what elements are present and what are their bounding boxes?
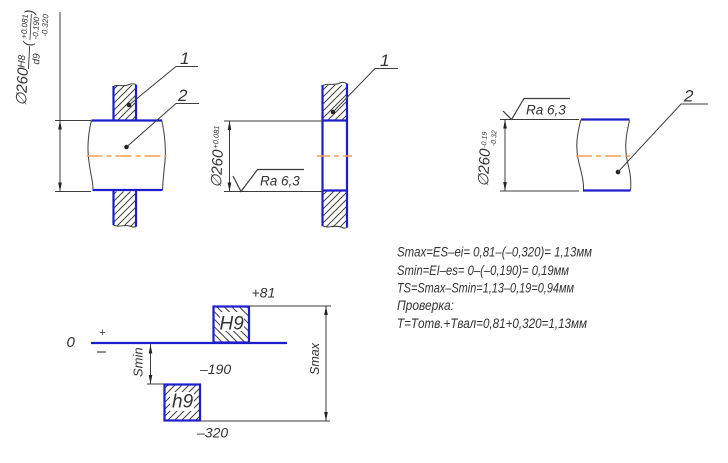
svg-text:+81: +81 — [252, 285, 276, 301]
svg-text:TS=Smax–Smin=1,13–0,19=0,94мм: TS=Smax–Smin=1,13–0,19=0,94мм — [397, 281, 574, 297]
svg-text:Ra 6,3: Ra 6,3 — [260, 174, 300, 189]
svg-text:∅260: ∅260 — [208, 149, 227, 189]
svg-text:+0.081: +0.081 — [20, 14, 30, 39]
svg-text:0: 0 — [67, 334, 76, 351]
svg-text:Проверка:: Проверка: — [397, 298, 454, 314]
svg-text:h9: h9 — [172, 392, 194, 413]
svg-text:T=Tотв.+Tвал=0,81+0,320=1,13мм: T=Tотв.+Tвал=0,81+0,320=1,13мм — [397, 316, 587, 332]
svg-text:+: + — [99, 327, 106, 339]
svg-text:∅260: ∅260 — [475, 148, 494, 188]
svg-text:-0.19: -0.19 — [481, 132, 489, 148]
svg-text:-0.32: -0.32 — [491, 130, 499, 146]
svg-text:–190: –190 — [199, 361, 231, 377]
svg-text:Smax: Smax — [308, 342, 322, 375]
svg-text:Smin: Smin — [131, 347, 146, 377]
svg-text:1: 1 — [180, 49, 189, 68]
svg-text:(: ( — [20, 40, 35, 47]
svg-text:1: 1 — [380, 51, 389, 70]
svg-text:H8: H8 — [17, 54, 29, 68]
svg-text:-0.320: -0.320 — [40, 13, 50, 37]
svg-text:H9: H9 — [220, 314, 245, 335]
svg-text:d9: d9 — [31, 53, 43, 65]
svg-text:–320: –320 — [196, 425, 228, 441]
svg-text:2: 2 — [177, 86, 188, 105]
svg-text:∅260: ∅260 — [13, 67, 32, 107]
svg-text:Smin=EI–es= 0–(–0,190)= 0,19мм: Smin=EI–es= 0–(–0,190)= 0,19мм — [397, 263, 569, 279]
svg-text:2: 2 — [683, 87, 694, 106]
svg-text:+0.081: +0.081 — [211, 125, 221, 149]
svg-text:Ra 6,3: Ra 6,3 — [526, 103, 566, 118]
svg-text:Smax=ES–ei= 0,81–(–0,320)= 1,1: Smax=ES–ei= 0,81–(–0,320)= 1,13мм — [397, 245, 592, 261]
